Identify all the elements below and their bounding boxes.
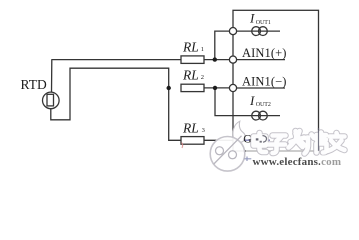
wire: RL2 right to AIN1(-) pin [204, 87, 229, 89]
junction node RL2/IOUT2 [213, 86, 217, 90]
svg-text:AIN1(−): AIN1(−) [242, 74, 287, 88]
RTD sensor body [43, 92, 60, 109]
svg-text:3: 3 [202, 127, 205, 134]
label GND fragments visible through watermark [243, 133, 266, 145]
pin stub AIN1(+) [237, 59, 285, 61]
wire: IOUT1 feed from RL1 node up [215, 31, 230, 59]
svg-text:I: I [249, 93, 255, 108]
wire: RL1 right to AIN1(+) pin [204, 59, 229, 61]
resistor RL3 [181, 137, 204, 145]
watermark red mark [182, 143, 183, 149]
blue marks near GND [244, 139, 270, 141]
watermark url text [245, 155, 357, 168]
svg-text:OUT2: OUT2 [256, 102, 271, 108]
wire: IOUT1 internal wire [237, 30, 280, 32]
svg-text:RL: RL [182, 121, 199, 136]
wire: net B junction down to RL3 (net C) [169, 88, 181, 140]
svg-text:I: I [249, 11, 255, 26]
watermark logo circle [210, 137, 245, 172]
pin terminal IOUT1 [229, 28, 236, 35]
svg-text:1: 1 [201, 46, 204, 53]
wire: RL3 right toward GND pin [204, 139, 233, 141]
resistor RL2 [181, 84, 204, 91]
watermark [210, 121, 349, 171]
wire: RTD top lead up and right to RL1 (net A) [51, 60, 54, 93]
svg-text:RTD: RTD [21, 77, 47, 92]
wire: RTD bottom lead down, right, up and right to RL2 (net B) [51, 68, 169, 120]
svg-text:RL: RL [182, 40, 199, 55]
wire: IOUT2 feed from RL2 node down [215, 88, 280, 116]
chip right edge showing through watermark [318, 128, 320, 151]
chip U1 boundary box [233, 10, 319, 151]
svg-text:2: 2 [201, 74, 204, 81]
svg-text:RL: RL [182, 68, 199, 83]
watermark CJK text (drawn strokes) [254, 131, 345, 154]
svg-text:AIN1(+): AIN1(+) [242, 46, 287, 60]
watermark logo swoosh [233, 121, 245, 142]
resistor RL1 [181, 56, 204, 64]
junction node RL1/IOUT1 [213, 57, 217, 61]
svg-text:G: G [243, 133, 251, 145]
pin terminal AIN1(+) [229, 56, 236, 63]
junction node RTD/RL2/RL3 [167, 86, 171, 90]
pin terminal AIN1(-) [229, 84, 236, 91]
pin stub AIN1(-) [237, 87, 285, 89]
svg-text:OUT1: OUT1 [256, 20, 271, 26]
current source I_OUT1 symbol [252, 27, 261, 36]
current source I_OUT2 symbol [252, 111, 261, 120]
